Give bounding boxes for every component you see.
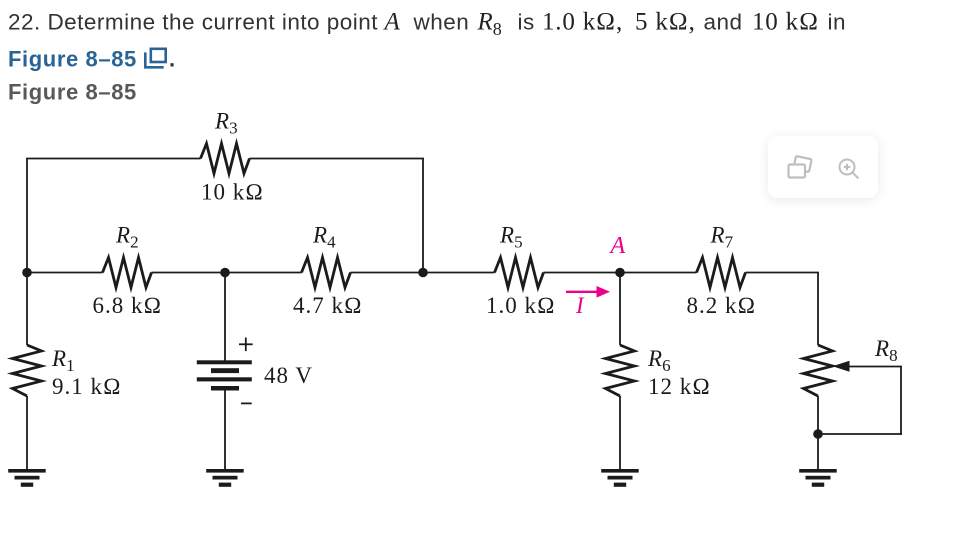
svg-text:1.0 kΩ: 1.0 kΩ bbox=[486, 293, 556, 318]
resistor R4 bbox=[302, 258, 351, 288]
copy icon bbox=[785, 155, 817, 185]
resistor R2 bbox=[103, 258, 152, 288]
wire top-left vertical bbox=[26, 159, 28, 273]
resistor R3 bbox=[201, 144, 250, 174]
svg-text:R4: R4 bbox=[312, 223, 336, 252]
svg-text:R8: R8 bbox=[874, 336, 898, 365]
svg-text:6.8 kΩ: 6.8 kΩ bbox=[93, 293, 163, 318]
svg-text:R7: R7 bbox=[710, 223, 734, 252]
svg-text:8.2 kΩ: 8.2 kΩ bbox=[687, 293, 757, 318]
svg-text:R6: R6 bbox=[647, 346, 671, 375]
wire left branch lower bbox=[26, 396, 28, 470]
svg-text:5 kΩ,: 5 kΩ, bbox=[635, 9, 696, 36]
svg-text:10 kΩ: 10 kΩ bbox=[201, 180, 264, 205]
svg-text:4.7 kΩ: 4.7 kΩ bbox=[293, 293, 363, 318]
wire R8 branch lower bbox=[817, 396, 819, 470]
wire top right segment bbox=[250, 158, 424, 160]
svg-text:I: I bbox=[575, 293, 585, 318]
node dot right-top bbox=[418, 268, 428, 278]
battery VS plates bbox=[197, 360, 252, 364]
wire top left segment bbox=[26, 158, 200, 160]
zoom icon bbox=[837, 157, 863, 183]
svg-text:10 kΩ: 10 kΩ bbox=[752, 9, 819, 36]
wire R8 wiper horizontal bbox=[846, 366, 902, 368]
svg-text:R8: R8 bbox=[477, 9, 502, 40]
ground R6 bbox=[601, 469, 639, 473]
wire main line seg 3 bbox=[351, 272, 495, 274]
svg-text:R1: R1 bbox=[51, 346, 75, 375]
svg-text:when: when bbox=[413, 10, 470, 35]
wire top-right vertical bbox=[422, 159, 424, 273]
battery plus sign bbox=[239, 338, 253, 404]
wire R6 branch upper bbox=[619, 273, 621, 346]
resistor R6 bbox=[606, 345, 635, 396]
svg-text:9.1 kΩ: 9.1 kΩ bbox=[52, 374, 122, 399]
popup icon bbox=[145, 49, 165, 68]
svg-text:.: . bbox=[169, 46, 175, 71]
ground R8 bbox=[799, 469, 837, 473]
node dot R8 bottom bbox=[813, 429, 823, 439]
wire R8 loop vertical bbox=[900, 367, 902, 435]
wire main line seg 5 bbox=[746, 272, 819, 274]
wire R6 branch lower bbox=[619, 396, 621, 470]
svg-text:22. Determine the current into: 22. Determine the current into point bbox=[8, 10, 378, 35]
resistor R7 bbox=[697, 258, 746, 288]
resistor R5 bbox=[495, 258, 544, 288]
svg-text:in: in bbox=[828, 10, 846, 35]
svg-text:R3: R3 bbox=[214, 109, 238, 138]
svg-text:Figure 8–85: Figure 8–85 bbox=[8, 46, 137, 71]
wire battery branch upper bbox=[224, 273, 226, 362]
battery minus sign bbox=[241, 402, 252, 404]
wire main line seg 1 bbox=[27, 272, 103, 274]
svg-text:48 V: 48 V bbox=[264, 363, 313, 388]
current arrow I bbox=[566, 286, 610, 298]
node dot left bbox=[22, 268, 32, 278]
wire R8 branch upper bbox=[817, 273, 819, 346]
svg-text:R5: R5 bbox=[499, 223, 523, 252]
R8 wiper arrowhead bbox=[833, 361, 850, 372]
resistor R8 rheostat bbox=[804, 345, 833, 396]
toolbar card top-right bbox=[768, 136, 878, 198]
node dot center bbox=[220, 268, 230, 278]
node A dot bbox=[615, 268, 625, 278]
svg-text:Figure 8–85: Figure 8–85 bbox=[8, 79, 137, 104]
wire main line seg 4 bbox=[544, 272, 697, 274]
svg-text:and: and bbox=[704, 10, 743, 35]
wire left branch upper bbox=[26, 273, 28, 346]
svg-text:1.0 kΩ,: 1.0 kΩ, bbox=[542, 9, 623, 36]
svg-text:12 kΩ: 12 kΩ bbox=[648, 374, 711, 399]
svg-text:R2: R2 bbox=[115, 223, 139, 252]
resistor R1 bbox=[13, 345, 42, 396]
svg-text:A: A bbox=[609, 233, 626, 259]
ground left bbox=[8, 469, 46, 473]
svg-text:A: A bbox=[383, 9, 401, 36]
wire R8 loop bottom bbox=[818, 433, 902, 435]
wire battery branch lower bbox=[224, 390, 226, 470]
figure link line bbox=[8, 46, 175, 104]
ground battery bbox=[206, 469, 244, 473]
wire main line seg 2 bbox=[152, 272, 302, 274]
svg-text:is: is bbox=[518, 10, 535, 35]
